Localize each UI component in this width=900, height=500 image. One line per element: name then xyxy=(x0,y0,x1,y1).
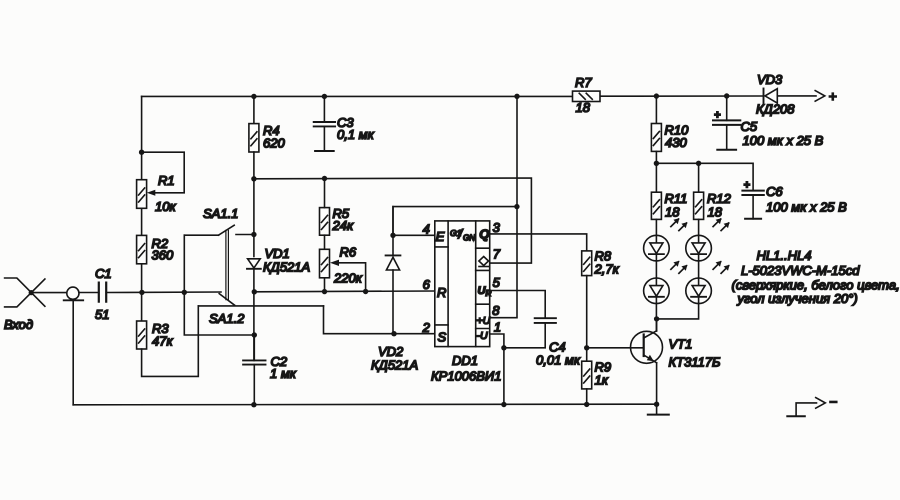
svg-text:C1: C1 xyxy=(95,266,112,281)
svg-text:L-5023VWC-M-15cd: L-5023VWC-M-15cd xyxy=(741,263,860,278)
node C2 top xyxy=(252,332,257,337)
diode VD2 xyxy=(386,255,401,270)
svg-text:1к: 1к xyxy=(595,373,609,388)
svg-text:КТ3117Б: КТ3117Б xyxy=(669,355,722,370)
DD1 open-collector symbol pin7 xyxy=(479,257,489,267)
wire HL2 to HL4 xyxy=(698,261,700,278)
node pin1 / C4 xyxy=(501,345,506,350)
wire R2-R3 xyxy=(141,264,143,321)
+ terminal arrow xyxy=(815,91,825,102)
switch SA1.1 blade xyxy=(219,225,235,235)
svg-text:100 мк x 25 В: 100 мк x 25 В xyxy=(743,133,824,148)
node ground rail / emitter xyxy=(654,402,659,407)
wire HL4 to collector node xyxy=(657,304,699,319)
svg-text:0,01 мк: 0,01 мк xyxy=(536,353,581,368)
wire SA1.1 right contact xyxy=(236,234,254,236)
LED HL1 xyxy=(644,218,688,261)
node pin4 / +V vertical xyxy=(514,204,519,209)
node rail2 / R5 xyxy=(322,176,327,181)
wire +V top rail right xyxy=(600,95,763,97)
wire R3 bottom to SA1.2 contact xyxy=(142,306,199,377)
svg-text:R7: R7 xyxy=(575,75,592,90)
svg-text:SA1.2: SA1.2 xyxy=(209,311,245,326)
wire bypass input to C2 node xyxy=(184,292,254,335)
wire R11 to HL1 xyxy=(655,219,657,235)
resistor R11 xyxy=(651,192,661,219)
svg-text:HL1..HL4: HL1..HL4 xyxy=(757,248,812,263)
svg-text:КР1006ВИ1: КР1006ВИ1 xyxy=(431,369,501,384)
wire VD3 to + terminal xyxy=(777,95,816,97)
svg-text:100 мк x 25 В: 100 мк x 25 В xyxy=(766,200,847,215)
node A-line / R6 wiper xyxy=(363,289,368,294)
svg-text:Вход: Вход xyxy=(4,317,33,332)
node collector xyxy=(654,316,659,321)
svg-text:КД521А: КД521А xyxy=(263,260,310,275)
svg-text:R6: R6 xyxy=(340,245,357,260)
wire to R12 xyxy=(698,163,700,192)
node ground rail / R9 xyxy=(584,402,589,407)
svg-text:угол излучения 20°): угол излучения 20°) xyxy=(737,291,858,306)
svg-text:18: 18 xyxy=(665,205,680,220)
svg-text:18: 18 xyxy=(576,100,591,115)
svg-text:S: S xyxy=(438,330,447,345)
diode VD3 xyxy=(764,89,778,104)
wire ground rail xyxy=(73,403,656,406)
svg-text:+U: +U xyxy=(477,315,491,327)
wire jack to C1 xyxy=(79,292,99,294)
ground C5 xyxy=(717,149,736,151)
resistor R7 xyxy=(573,91,601,101)
wire rail2 to R5 xyxy=(324,179,326,208)
svg-text:6: 6 xyxy=(423,277,431,292)
svg-text:КД208: КД208 xyxy=(756,102,795,117)
wire node to R9 xyxy=(586,348,588,361)
wire +V vertical to pin 8 xyxy=(490,96,517,317)
wire VD2 cathode up xyxy=(392,207,394,256)
svg-text:360: 360 xyxy=(152,248,174,263)
node pin2 line / VD2 xyxy=(391,331,396,336)
resistor R2 xyxy=(137,235,147,263)
input connector X symbol xyxy=(5,278,45,307)
LED HL3 xyxy=(644,261,688,304)
svg-text:VD3: VD3 xyxy=(757,72,783,87)
svg-text:+: + xyxy=(744,180,751,192)
svg-text:+: + xyxy=(829,88,837,104)
wire SA1.2 throw contact xyxy=(198,305,323,307)
node R1 wiper tap xyxy=(139,150,144,155)
node SA1.1 / VD1 anode xyxy=(251,232,256,237)
wire pin 4 E lead xyxy=(393,234,435,236)
wire HL3 to collector xyxy=(655,304,657,331)
node LED rail / R11 xyxy=(654,161,659,166)
wire to R11 xyxy=(655,163,657,192)
wire collector up xyxy=(656,319,658,331)
node ground rail / C2 xyxy=(251,402,256,407)
wire pin 1 to ground rail xyxy=(490,334,504,405)
node top rail / pin8 branch xyxy=(514,94,519,99)
resistor R9 xyxy=(582,361,592,389)
capacitor C2 xyxy=(243,335,265,405)
wire R12 to HL2 xyxy=(698,219,700,235)
wire pin 3 Q to R8 xyxy=(490,234,587,251)
node top rail / R10 xyxy=(654,93,659,98)
resistor R10 xyxy=(651,124,661,152)
svg-text:−: − xyxy=(829,394,837,410)
svg-text:5: 5 xyxy=(493,275,501,290)
LED HL4 xyxy=(686,261,730,304)
wire rail to R4 xyxy=(253,96,255,123)
svg-text:430: 430 xyxy=(665,135,687,150)
wire pin 5 to C4 xyxy=(490,291,546,319)
wire R1-R2 xyxy=(141,208,143,235)
svg-text:51: 51 xyxy=(95,307,109,322)
op-amp/timer DD1 КР1006ВИ1 box xyxy=(435,221,490,347)
wire rail2 R4/R5 to pin 7 xyxy=(254,178,532,263)
wire +V top rail left xyxy=(142,95,573,97)
wire R9 to ground rail xyxy=(586,389,588,405)
svg-text:4: 4 xyxy=(423,222,430,237)
ground C3 xyxy=(315,150,334,152)
capacitor C5 (polarized) xyxy=(713,96,740,150)
node VD2 / pin4 xyxy=(390,233,395,238)
wire A-line to pin 6 xyxy=(254,290,434,293)
svg-text:+: + xyxy=(714,110,721,122)
wire input to jack xyxy=(32,292,67,294)
node top rail / C3 xyxy=(322,94,327,99)
wire VD2 anode to pin2 line xyxy=(392,270,394,334)
svg-text:КД521А: КД521А xyxy=(371,358,418,373)
svg-text:10к: 10к xyxy=(155,199,176,214)
svg-text:SA1.1: SA1.1 xyxy=(203,206,238,221)
svg-text:1: 1 xyxy=(494,320,501,335)
capacitor C3 xyxy=(314,96,335,151)
ground emitter xyxy=(648,414,669,416)
wire pin4 up to +V branch xyxy=(393,207,517,236)
wire R10 to LED rail xyxy=(655,151,657,163)
wire LED rail to C6 xyxy=(656,163,753,190)
R1 wiper arm xyxy=(142,152,185,193)
wire rail to R10 xyxy=(655,96,657,123)
resistor R12 xyxy=(694,192,704,219)
svg-text:C6: C6 xyxy=(766,184,783,199)
svg-text:E: E xyxy=(436,229,445,244)
svg-text:1 мк: 1 мк xyxy=(270,366,297,381)
wire C1 to SA1.2 pivot xyxy=(106,291,221,294)
node LED rail / R12 xyxy=(696,161,701,166)
svg-text:R1: R1 xyxy=(158,173,175,188)
svg-text:47к: 47к xyxy=(152,334,173,349)
svg-text:18: 18 xyxy=(708,205,723,220)
svg-text:24к: 24к xyxy=(332,218,354,233)
node top rail / R4 xyxy=(251,94,256,99)
svg-text:C5: C5 xyxy=(741,119,758,134)
svg-text:VT1: VT1 xyxy=(669,337,693,352)
wire SA1.1 left contact lead xyxy=(184,234,218,236)
input jack XW1 xyxy=(64,287,83,300)
wire R6 to A-line xyxy=(324,278,326,292)
switch SA1.2 blade xyxy=(219,294,234,306)
LED HL2 xyxy=(686,218,730,261)
wire base xyxy=(587,347,644,349)
svg-text:Q: Q xyxy=(479,227,489,242)
svg-text:R: R xyxy=(437,285,446,300)
wire emitter down xyxy=(656,363,658,415)
svg-text:620: 620 xyxy=(263,136,285,151)
R6 wiper arm xyxy=(338,263,366,292)
svg-text:-U: -U xyxy=(477,330,488,342)
svg-text:2: 2 xyxy=(422,320,431,335)
svg-text:3: 3 xyxy=(493,220,501,235)
capacitor C1 xyxy=(99,283,106,302)
wire R4 to VD1 xyxy=(253,152,255,257)
svg-text:220к: 220к xyxy=(333,271,363,286)
ground C6 xyxy=(745,218,761,220)
transistor VT1 xyxy=(631,331,663,364)
node input line / R chain xyxy=(139,290,144,295)
resistor R3 xyxy=(137,321,147,349)
capacitor C6 (polarized) xyxy=(742,180,763,219)
svg-text:8: 8 xyxy=(492,303,500,318)
wire HL1 to HL3 xyxy=(655,261,657,278)
node input / SA1 branch xyxy=(182,290,187,295)
node ground rail / pin1 xyxy=(501,402,506,407)
svg-text:0,1 мк: 0,1 мк xyxy=(337,127,375,142)
wire VD1 to C2 xyxy=(253,269,255,361)
wire left chain top xyxy=(141,96,143,179)
node A-line / R6 xyxy=(322,289,327,294)
wire SA1.2 contact to pin 2 S xyxy=(324,306,435,334)
wire SA1.1 left contact down xyxy=(183,235,185,292)
wire R8 to base node xyxy=(586,276,588,348)
diode VD1 xyxy=(247,259,261,269)
node R4 line / rail2 xyxy=(251,176,256,181)
resistor R8 xyxy=(582,251,592,276)
SA1 mechanical link xyxy=(226,230,229,299)
wire jack shield down xyxy=(72,300,74,405)
resistor R5 xyxy=(320,208,330,236)
capacitor C4 xyxy=(504,318,556,348)
resistor R1 (potentiometer body) xyxy=(137,180,147,209)
resistor R4 xyxy=(249,124,259,152)
svg-text:7: 7 xyxy=(493,247,501,262)
svg-text:DD1: DD1 xyxy=(452,353,478,368)
svg-text:GN: GN xyxy=(463,234,475,243)
node top rail / C5 xyxy=(724,93,729,98)
wire R5 to R6 xyxy=(324,235,326,249)
resistor R6 (trimmer body) xyxy=(320,249,330,277)
minus terminal xyxy=(787,394,837,417)
node R8 R9 base xyxy=(584,345,589,350)
svg-text:2,7к: 2,7к xyxy=(594,262,620,277)
node A-line / VD1 xyxy=(252,289,257,294)
